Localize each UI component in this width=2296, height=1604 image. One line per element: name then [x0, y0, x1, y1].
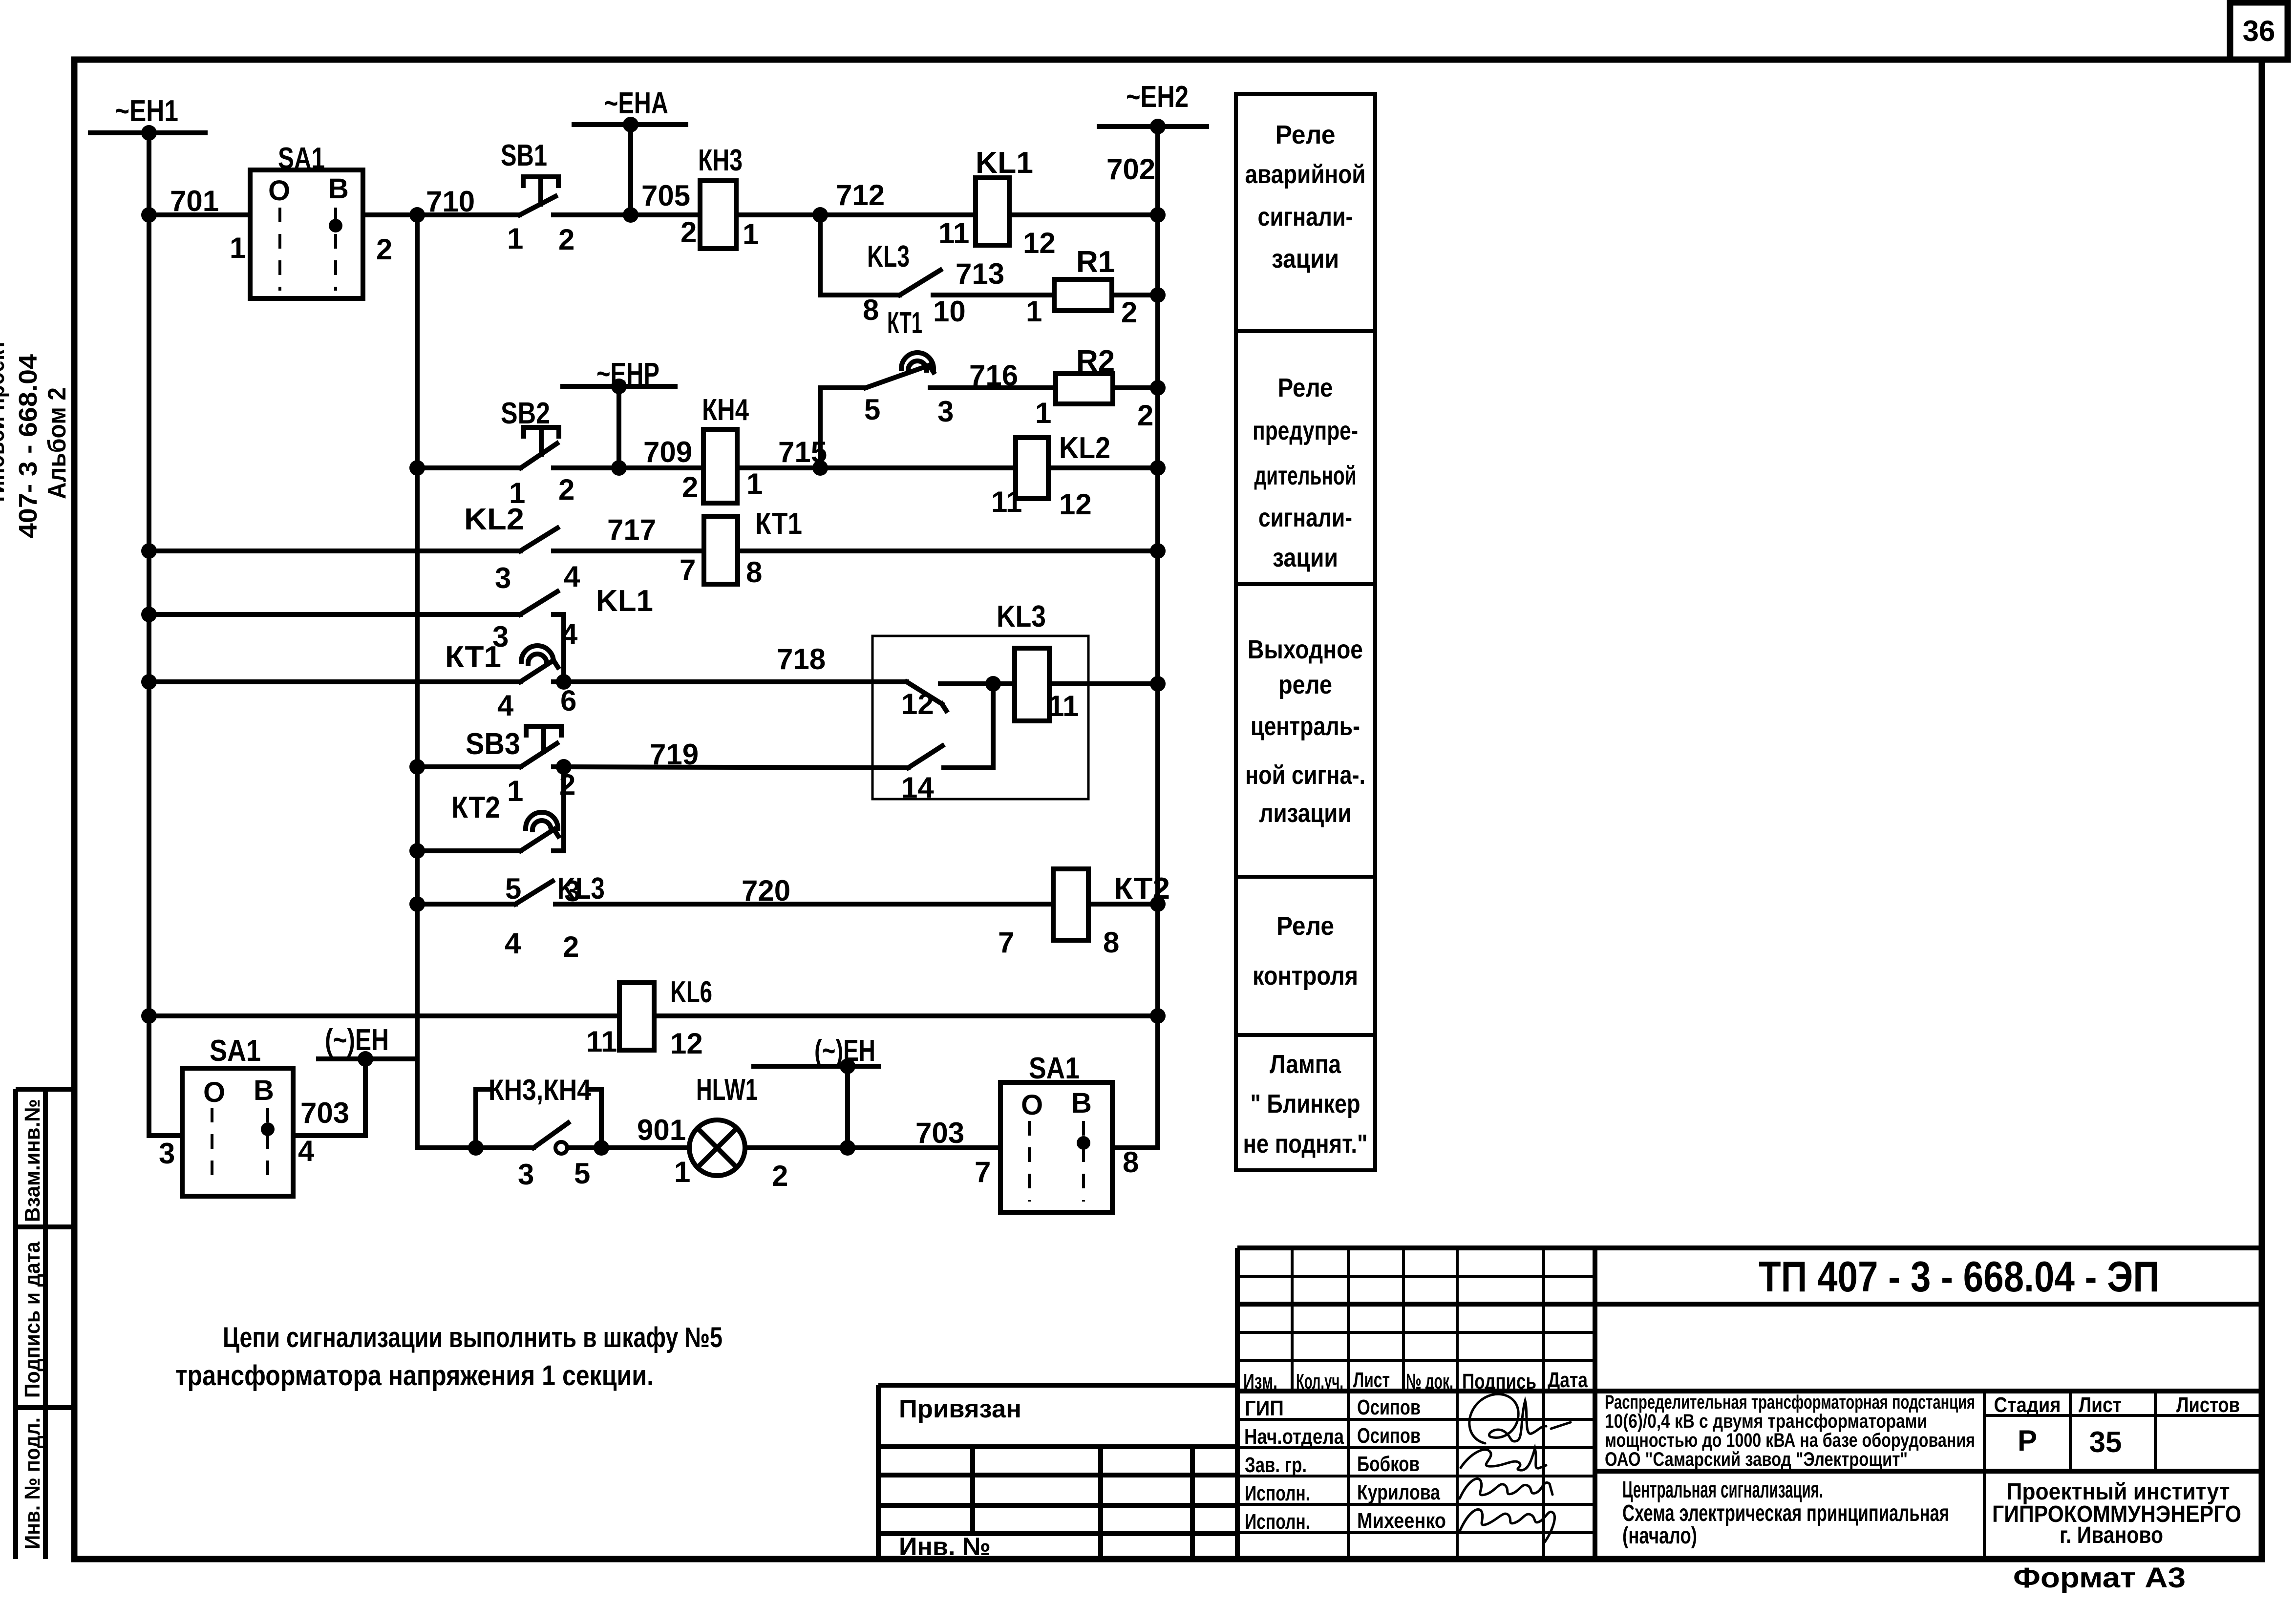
- svg-text:4: 4: [497, 689, 514, 722]
- svg-text:709: 709: [643, 436, 692, 468]
- svg-text:2: 2: [1137, 399, 1153, 432]
- bus 710 second rail: [417, 215, 476, 1148]
- svg-text:719: 719: [650, 738, 699, 771]
- KL3 node inner: [985, 676, 1001, 692]
- svg-text:1: 1: [507, 775, 523, 807]
- node junction bus right/KL6 rung: [1150, 1008, 1166, 1024]
- svg-text:1: 1: [743, 218, 759, 251]
- resistor R2: [1056, 374, 1113, 404]
- svg-text:Исполн.: Исполн.: [1245, 1481, 1310, 1505]
- svg-text:Реле: Реле: [1276, 120, 1336, 149]
- svg-text:36: 36: [2243, 15, 2275, 47]
- wire 710: [363, 212, 520, 217]
- contact КН3-КН4: [476, 1145, 533, 1150]
- svg-text:" Блинкер: " Блинкер: [1251, 1089, 1361, 1119]
- svg-text:КН4: КН4: [702, 393, 749, 427]
- coil KL6 11-12: [619, 983, 654, 1050]
- SA1 bottom position dot: [261, 1122, 275, 1136]
- svg-text:2: 2: [563, 930, 579, 963]
- svg-text:Формат А3: Формат А3: [2013, 1562, 2186, 1594]
- svg-text:В: В: [1071, 1087, 1092, 1119]
- node 710: [409, 207, 425, 223]
- svg-text:зации: зации: [1272, 244, 1339, 274]
- SA1 right position dot: [1077, 1136, 1090, 1150]
- svg-text:г. Иваново: г. Иваново: [2060, 1522, 2163, 1548]
- svg-text:720: 720: [742, 874, 790, 907]
- svg-text:контроля: контроля: [1253, 961, 1358, 991]
- svg-text:Подпись и дата: Подпись и дата: [21, 1242, 44, 1398]
- SA1 top dashed position B: [334, 208, 337, 291]
- svg-text:мощностью до 1000 кВА на базе: мощностью до 1000 кВА на базе оборудован…: [1605, 1430, 1975, 1451]
- coil KH4: [703, 429, 737, 503]
- svg-text:716: 716: [969, 359, 1018, 392]
- bracket КН3,КН4: [476, 1089, 489, 1148]
- supply bar ~EHP: [563, 384, 675, 389]
- svg-text:1: 1: [746, 467, 763, 500]
- svg-text:11: 11: [1048, 690, 1079, 722]
- node junction bus right/KT2 coil: [1150, 896, 1166, 912]
- wire 701: [149, 212, 250, 217]
- node junction bus2/SB3 rung: [409, 759, 425, 775]
- margin label Инв. № подл.: [21, 1417, 44, 1549]
- node junction bus1/KL6 rung: [141, 1008, 157, 1024]
- svg-text:Изм.: Изм.: [1243, 1370, 1277, 1393]
- svg-text:705: 705: [641, 179, 690, 212]
- svg-text:KL1: KL1: [976, 146, 1033, 180]
- coil KT1 7-8: [704, 516, 738, 584]
- svg-text:КТ1: КТ1: [887, 306, 922, 340]
- supply bar (~)EH right: [754, 1064, 878, 1069]
- svg-text:Реле: Реле: [1276, 911, 1334, 941]
- svg-text:ГИП: ГИП: [1245, 1396, 1284, 1420]
- svg-text:централь-: централь-: [1251, 712, 1360, 741]
- svg-text:Кол.уч.: Кол.уч.: [1296, 1370, 1343, 1393]
- coil KL2 11-12: [1016, 438, 1048, 499]
- resistor R1: [1054, 279, 1112, 311]
- wire 703 left: [293, 1133, 365, 1138]
- svg-text:Типовой проект: Типовой проект: [0, 339, 10, 506]
- svg-text:Осипов: Осипов: [1357, 1424, 1421, 1448]
- svg-text:КТ2: КТ2: [451, 791, 500, 824]
- svg-text:Альбом 2: Альбом 2: [43, 387, 71, 499]
- svg-text:717: 717: [607, 513, 656, 546]
- svg-text:дительной: дительной: [1254, 461, 1357, 490]
- pushbutton SB3: [417, 764, 521, 769]
- margin label Подпись и дата: [21, 1242, 44, 1398]
- node junction bus2/KT2 rung: [409, 843, 425, 859]
- svg-text:Цепи сигнализации выполнить в: Цепи сигнализации выполнить в шкафу №5: [223, 1322, 723, 1353]
- svg-text:Взам.инв.№: Взам.инв.№: [21, 1099, 44, 1222]
- SA1 bottom dashed O: [211, 1108, 213, 1187]
- contact KL1 3-4: [149, 612, 520, 617]
- svg-text:Курилова: Курилова: [1357, 1480, 1440, 1504]
- svg-text:11: 11: [991, 485, 1022, 518]
- SA1 right dashed O: [1028, 1121, 1031, 1202]
- svg-text:КТ1: КТ1: [445, 640, 501, 674]
- svg-text:КН3: КН3: [698, 144, 743, 177]
- wire 715: [737, 465, 1016, 470]
- svg-text:11: 11: [586, 1025, 617, 1058]
- title block grid: [1237, 1245, 2262, 1250]
- svg-text:1: 1: [230, 232, 246, 264]
- node junction bus right/KL2 coil: [1150, 460, 1166, 476]
- svg-text:O: O: [203, 1076, 225, 1108]
- privyazan table: [878, 1383, 1237, 1388]
- supply bar (~)EH left: [319, 1056, 412, 1061]
- wire (~)EH left riser: [363, 1059, 368, 1136]
- node junction bus right/rung1: [1150, 207, 1166, 223]
- wire KL3 inner vertical: [991, 684, 996, 768]
- svg-text:Реле: Реле: [1278, 373, 1333, 402]
- svg-text:~EHP: ~EHP: [596, 357, 659, 391]
- svg-text:SA1: SA1: [210, 1034, 261, 1068]
- node 712: [812, 207, 828, 223]
- wire (~)EH right riser: [845, 1066, 850, 1148]
- svg-text:4: 4: [505, 927, 521, 960]
- node junction bus right/KL3 coil: [1150, 676, 1166, 692]
- switch SA1 top box: [250, 170, 363, 298]
- SA1 bottom dashed B: [266, 1108, 269, 1187]
- svg-text:3: 3: [937, 395, 954, 428]
- svg-text:7: 7: [975, 1156, 991, 1188]
- svg-text:HLW1: HLW1: [696, 1073, 758, 1107]
- wire SA1 right to bus: [1112, 1145, 1158, 1150]
- svg-text:1: 1: [1026, 295, 1042, 328]
- contact KL3 8-10: [820, 293, 900, 297]
- node (~)EH right: [840, 1140, 855, 1156]
- svg-text:12: 12: [1059, 488, 1092, 521]
- svg-text:4: 4: [298, 1135, 315, 1167]
- svg-text:715: 715: [778, 436, 827, 468]
- svg-text:3: 3: [518, 1158, 534, 1191]
- left margin stamp table: [16, 1087, 74, 1092]
- svg-text:Осипов: Осипов: [1357, 1395, 1421, 1419]
- svg-text:Лист: Лист: [1353, 1368, 1390, 1392]
- wire 901: [601, 1145, 689, 1150]
- svg-text:KL3: KL3: [557, 872, 605, 906]
- svg-text:сигнали-: сигнали-: [1258, 202, 1353, 232]
- svg-text:2: 2: [772, 1160, 788, 1192]
- svg-text:8: 8: [746, 556, 762, 589]
- contact KT1 4-6 time delay: [149, 679, 520, 684]
- svg-text:14: 14: [901, 771, 934, 804]
- node junction bus1/KL2 rung: [141, 543, 157, 559]
- svg-text:Инв. № подл.: Инв. № подл.: [21, 1417, 44, 1549]
- svg-text:2: 2: [682, 471, 698, 504]
- wire ~EH2 riser 702: [1155, 127, 1160, 215]
- bus ~EH2 right rail 702: [1155, 215, 1160, 1148]
- coil KL3: [1015, 648, 1049, 721]
- node junction bus right/R2: [1150, 380, 1166, 396]
- svg-text:Инв. №: Инв. №: [899, 1533, 991, 1561]
- wire node715 up: [818, 388, 823, 468]
- svg-text:SB3: SB3: [466, 727, 520, 761]
- node junction bus1/701: [141, 207, 157, 223]
- svg-text:12: 12: [1023, 227, 1056, 259]
- wire KL6 rung right: [654, 1013, 1158, 1018]
- wire 705 to KH3: [631, 212, 700, 217]
- svg-text:аварийной: аварийной: [1245, 160, 1366, 189]
- svg-text:не поднят.": не поднят.": [1243, 1129, 1368, 1159]
- wire KT2 coil to bus: [1088, 902, 1158, 907]
- supply bar ~EHA: [574, 122, 686, 127]
- svg-text:SA1: SA1: [278, 142, 325, 175]
- svg-text:реле: реле: [1278, 670, 1332, 699]
- svg-text:В: В: [254, 1075, 274, 1106]
- svg-text:3: 3: [159, 1137, 175, 1170]
- pushbutton SB1: [520, 196, 555, 215]
- svg-text:701: 701: [170, 185, 219, 217]
- svg-text:Привязан: Привязан: [899, 1395, 1021, 1423]
- wire KL3 coil left: [993, 681, 1015, 686]
- svg-text:(~)EH: (~)EH: [814, 1034, 875, 1068]
- svg-text:ОАО "Самарский завод "Электрощ: ОАО "Самарский завод "Электрощит": [1605, 1449, 1908, 1470]
- svg-text:В: В: [328, 173, 349, 205]
- svg-text:Михеенко: Михеенко: [1357, 1509, 1446, 1533]
- svg-text:KL6: KL6: [670, 975, 712, 1009]
- svg-text:KL1: KL1: [596, 584, 653, 618]
- svg-text:Бобков: Бобков: [1357, 1452, 1420, 1476]
- svg-text:10: 10: [933, 295, 966, 328]
- svg-text:лизации: лизации: [1259, 799, 1352, 828]
- node 718 junction: [556, 674, 572, 690]
- svg-text:718: 718: [777, 643, 826, 675]
- node 709: [611, 460, 627, 476]
- svg-text:35: 35: [2089, 1426, 2122, 1458]
- svg-text:Центральная сигнализация.: Центральная сигнализация.: [1622, 1477, 1823, 1503]
- drawing frame border: [74, 57, 2262, 63]
- svg-text:R2: R2: [1076, 344, 1115, 378]
- svg-text:407- 3 - 668.04: 407- 3 - 668.04: [14, 354, 43, 538]
- coil KL1: [976, 178, 1009, 245]
- svg-text:2: 2: [680, 216, 697, 249]
- supply bar ~EH1: [90, 130, 205, 135]
- pushbutton SB2: [417, 465, 521, 470]
- KL3 contact 12: [907, 682, 942, 704]
- svg-text:R1: R1: [1076, 245, 1115, 279]
- wire KT1 coil to bus: [738, 549, 1158, 553]
- svg-text:Исполн.: Исполн.: [1245, 1510, 1310, 1534]
- svg-text:KL3: KL3: [867, 240, 910, 274]
- svg-text:№ док.: № док.: [1406, 1370, 1453, 1393]
- wire lamp to EH node: [745, 1145, 1000, 1150]
- svg-text:710: 710: [426, 185, 475, 218]
- svg-text:КТ2: КТ2: [1114, 872, 1170, 906]
- wire 719: [564, 767, 908, 768]
- svg-text:1: 1: [1035, 397, 1051, 429]
- signature squiggles: [1469, 1394, 1546, 1443]
- contact KT2 5-3 time delay: [417, 848, 521, 853]
- contact KL3 4-2: [417, 902, 515, 907]
- wire ~EHP riser to node 709: [617, 386, 621, 468]
- svg-text:Стадия: Стадия: [1994, 1393, 2061, 1417]
- coil KT2 7-8: [1053, 869, 1088, 940]
- svg-text:(начало): (начало): [1622, 1523, 1697, 1549]
- svg-text:Листов: Листов: [2176, 1393, 2240, 1417]
- supply bar ~EH2: [1099, 124, 1207, 129]
- node KH3-KH4 right: [594, 1140, 609, 1156]
- node KH3-KH4 left: [468, 1140, 484, 1156]
- svg-text:901: 901: [637, 1114, 686, 1146]
- svg-text:8: 8: [1103, 926, 1119, 959]
- description column boxes: [1236, 94, 1375, 331]
- node junction bus2/720 rung: [409, 896, 425, 912]
- svg-text:712: 712: [836, 179, 885, 211]
- SA1 right dashed B: [1082, 1121, 1085, 1202]
- vertical margin text 407-3-668.04: [14, 354, 43, 538]
- svg-text:1: 1: [674, 1156, 690, 1188]
- SA1 top dashed position O: [278, 208, 281, 291]
- svg-text:предупре-: предупре-: [1253, 416, 1358, 445]
- wire R2 to bus: [1113, 385, 1158, 390]
- svg-text:KL2: KL2: [1059, 431, 1110, 465]
- svg-text:8: 8: [1123, 1146, 1139, 1179]
- node junction bus1/KL1 rung: [141, 607, 157, 622]
- svg-text:703: 703: [915, 1117, 964, 1149]
- lamp HLW1: [689, 1120, 745, 1176]
- svg-text:5: 5: [864, 393, 880, 426]
- wire KL2 to bus: [1048, 465, 1158, 470]
- contact KT1 5-3 time delay: [820, 385, 866, 390]
- svg-text:2: 2: [558, 223, 574, 256]
- node junction bus1/KT1 rung: [141, 674, 157, 690]
- svg-text:трансформатора напряжения 1 се: трансформатора напряжения 1 секции.: [175, 1360, 654, 1392]
- node 719: [556, 759, 572, 775]
- wire 712: [736, 212, 976, 217]
- svg-text:Распределительная трансформато: Распределительная трансформаторная подст…: [1605, 1392, 1975, 1413]
- svg-text:SB2: SB2: [501, 397, 550, 430]
- node junction bus right/R1: [1150, 287, 1166, 303]
- svg-text:~EH1: ~EH1: [115, 94, 178, 128]
- node 715: [812, 460, 828, 476]
- svg-text:5: 5: [574, 1157, 590, 1190]
- switch SA1 bottom box: [182, 1068, 293, 1196]
- wire KT2 up to 719: [561, 767, 566, 851]
- bus ~EH1 left rail: [149, 133, 182, 1136]
- svg-text:Выходное: Выходное: [1248, 635, 1363, 664]
- contact KL2 3-4: [149, 549, 520, 553]
- svg-text:2: 2: [376, 233, 392, 266]
- svg-text:ТП 407 - 3 - 668.04 - ЭП: ТП 407 - 3 - 668.04 - ЭП: [1759, 1252, 2159, 1301]
- svg-text:SA1: SA1: [1029, 1052, 1080, 1085]
- svg-text:Зав. гр.: Зав. гр.: [1245, 1453, 1307, 1477]
- svg-text:4: 4: [564, 560, 580, 593]
- svg-text:зации: зации: [1273, 543, 1338, 572]
- svg-text:~EHA: ~EHA: [604, 86, 668, 120]
- svg-text:сигнали-: сигнали-: [1258, 503, 1352, 532]
- wire ~EHA riser to node 705: [628, 125, 633, 215]
- svg-text:Дата: Дата: [1548, 1368, 1588, 1392]
- svg-text:Подпись: Подпись: [1462, 1370, 1536, 1393]
- margin label Взам.инв.№: [21, 1099, 44, 1222]
- svg-text:3: 3: [495, 562, 511, 594]
- node junction bus right/KT1 coil: [1150, 543, 1166, 559]
- svg-text:Лампа: Лампа: [1270, 1050, 1341, 1079]
- svg-text:КН3,КН4: КН3,КН4: [489, 1074, 592, 1106]
- wire KL1 down to 718: [561, 614, 566, 682]
- svg-text:Нач.отдела: Нач.отдела: [1244, 1425, 1344, 1449]
- svg-text:Лист: Лист: [2079, 1393, 2122, 1417]
- svg-text:КТ1: КТ1: [755, 507, 802, 541]
- svg-text:O: O: [268, 175, 290, 207]
- wire node712 down: [818, 215, 823, 295]
- svg-text:~EH2: ~EH2: [1126, 80, 1189, 114]
- coil KH3: [700, 181, 736, 249]
- node 705: [623, 207, 638, 223]
- svg-text:ной сигна-.: ной сигна-.: [1245, 760, 1365, 790]
- svg-text:(~)EH: (~)EH: [325, 1023, 389, 1057]
- svg-text:11: 11: [938, 217, 969, 250]
- svg-text:10(6)/0,4 кВ с двумя трансформ: 10(6)/0,4 кВ с двумя трансформаторами: [1605, 1411, 1927, 1432]
- wire KL1 to bus: [1009, 212, 1158, 217]
- svg-text:KL2: KL2: [464, 503, 524, 536]
- svg-text:7: 7: [998, 926, 1014, 959]
- SA1 top position dot: [329, 219, 342, 232]
- wire 718: [564, 679, 907, 684]
- svg-text:2: 2: [558, 473, 574, 506]
- svg-text:713: 713: [956, 257, 1004, 290]
- svg-text:703: 703: [300, 1097, 349, 1129]
- svg-text:1: 1: [507, 222, 523, 255]
- relay KL3 outline box: [872, 636, 1088, 799]
- svg-text:12: 12: [670, 1027, 703, 1060]
- svg-text:12: 12: [901, 688, 934, 720]
- svg-text:7: 7: [680, 553, 696, 586]
- wire R1 to bus: [1112, 293, 1158, 297]
- switch SA1 right box: [1000, 1082, 1112, 1212]
- svg-text:2: 2: [1121, 296, 1137, 329]
- wire KL6 rung left: [149, 1013, 619, 1018]
- svg-text:Р: Р: [2018, 1424, 2037, 1457]
- KL3 contact 14: [908, 746, 942, 768]
- svg-text:8: 8: [863, 294, 879, 326]
- svg-text:O: O: [1021, 1089, 1043, 1121]
- svg-text:702: 702: [1106, 153, 1155, 186]
- svg-text:SB1: SB1: [501, 139, 547, 172]
- wire KL3 coil to bus: [1049, 681, 1158, 686]
- svg-text:KL3: KL3: [997, 600, 1046, 633]
- vertical margin text Типовой проект: [0, 339, 10, 506]
- vertical margin text Альбом 2: [43, 387, 71, 499]
- node junction bus2/SB2 rung: [409, 460, 425, 476]
- page number box 36: [2230, 2, 2288, 60]
